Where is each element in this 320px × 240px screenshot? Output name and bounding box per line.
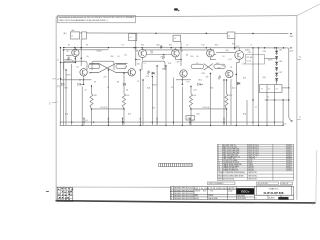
- svg-text:1000249: 1000249: [286, 158, 292, 160]
- svg-text:390: 390: [111, 56, 114, 58]
- junction: [283, 47, 284, 48]
- logo block: [237, 188, 255, 194]
- wire resistor bottom: [226, 109, 228, 125]
- junction: [75, 58, 76, 59]
- title inner box: [256, 186, 292, 195]
- wire sheet bottom border: [56, 186, 170, 188]
- svg-text:R15: R15: [222, 66, 225, 68]
- junction: [252, 99, 253, 100]
- wire input rail 2: [63, 50, 65, 126]
- wire Q5 collector: [238, 48, 240, 51]
- svg-text:2N404: 2N404: [97, 51, 102, 53]
- svg-text:RES 10,000 OHM 1/4W: RES 10,000 OHM 1/4W: [223, 152, 240, 154]
- wire resistor bottom: [190, 109, 192, 125]
- junction bus: [252, 121, 253, 122]
- wire sheet top border: [56, 16, 297, 17]
- junction bus1c: [252, 33, 253, 34]
- relay K1 box: [186, 116, 195, 120]
- svg-text:FINISH: FINISH: [208, 195, 213, 197]
- wire Q2 emitter: [142, 58, 144, 61]
- transistor Q8: [180, 70, 187, 77]
- svg-text:REVISED PER ECN 3-62: REVISED PER ECN 3-62: [174, 190, 193, 192]
- junction: [135, 47, 136, 48]
- zone tick left b: [52, 78, 56, 80]
- svg-text:R14: R14: [202, 44, 205, 46]
- wire bus drop: [142, 80, 144, 125]
- svg-text:C8: C8: [122, 44, 124, 46]
- svg-text:IN270: IN270: [268, 60, 273, 62]
- svg-text:1000270: 1000270: [286, 164, 292, 166]
- svg-text:REVISED PER ECN 2-61: REVISED PER ECN 2-61: [174, 188, 193, 190]
- svg-text:FLIP-FLOP 838: FLIP-FLOP 838: [264, 191, 284, 195]
- wire bus drop: [246, 100, 248, 125]
- transistor Q4: [207, 49, 215, 57]
- wire bus drop: [65, 70, 67, 125]
- terminal block TB1: [260, 85, 283, 93]
- wire Q2-Q3 link: [147, 54, 172, 56]
- wire small loop: [191, 64, 203, 68]
- wire small loop: [89, 64, 100, 68]
- stamp dash: [46, 190, 49, 192]
- zone tick right lower: [297, 119, 301, 121]
- svg-text:C: C: [299, 116, 301, 119]
- junction: [142, 79, 143, 80]
- wire resistor bottom: [123, 109, 125, 125]
- wire Q3 emitter: [174, 57, 176, 60]
- svg-text:R21 680: R21 680: [247, 57, 253, 59]
- junction bus: [189, 121, 190, 122]
- wire Q2 collector: [142, 48, 144, 50]
- svg-text:Q3: Q3: [181, 51, 183, 53]
- diode CR3: [152, 72, 155, 75]
- svg-text:C1: C1: [144, 63, 146, 65]
- svg-text:R10: R10: [141, 44, 144, 46]
- wire L3 to bus2: [180, 41, 182, 66]
- svg-text:T1: T1: [261, 89, 263, 91]
- svg-text:REVISED PER ECN 5-64: REVISED PER ECN 5-64: [174, 196, 193, 198]
- junction: [83, 84, 84, 85]
- svg-text:DIODE IN645 SILICON: DIODE IN645 SILICON: [223, 162, 239, 164]
- svg-text:1000256: 1000256: [286, 160, 292, 162]
- svg-text:1000291: 1000291: [286, 170, 292, 172]
- junction: [236, 74, 237, 75]
- svg-text:1000263: 1000263: [286, 162, 292, 164]
- svg-text:838-001: 838-001: [248, 170, 254, 172]
- wire bus drop: [81, 87, 83, 126]
- svg-text:(F3): (F3): [197, 114, 201, 116]
- junction: [223, 79, 224, 80]
- svg-text:DIODE IN270 GERM: DIODE IN270 GERM: [223, 160, 238, 162]
- junction bus: [223, 121, 224, 122]
- test point arrow: [156, 117, 158, 119]
- test point arrow: [139, 117, 141, 119]
- svg-text:1000277: 1000277: [286, 166, 292, 168]
- junction: [63, 47, 64, 48]
- diode CR1: [78, 83, 81, 86]
- scan stain blob: [174, 8, 178, 11]
- wire L1 to bus2: [80, 39, 82, 66]
- transistor Q6: [80, 69, 87, 76]
- resistor R5: [67, 57, 69, 61]
- svg-text:RC07 GF %% J: RC07 GF %% J: [248, 145, 259, 147]
- wire bus drop: [235, 63, 237, 126]
- wire coupling loop: [142, 61, 165, 70]
- wire bus drop: [173, 78, 175, 126]
- svg-text:(D6): (D6): [263, 77, 267, 79]
- svg-text:R8: R8: [117, 82, 119, 84]
- wire resistor top: [226, 80, 228, 94]
- wire Q1 collector: [74, 48, 76, 49]
- wire -15V bus: [60, 121, 284, 123]
- junction: [180, 47, 181, 48]
- transistor Q1: [72, 49, 79, 56]
- svg-text:T2: T2: [268, 89, 270, 91]
- wire +15V bus: [63, 47, 289, 49]
- inductor L2 box: [129, 34, 137, 41]
- wire small loop: [214, 64, 225, 68]
- zone tick right upper: [297, 59, 301, 61]
- svg-text:R19: R19: [232, 44, 235, 46]
- junction: [170, 47, 171, 48]
- svg-text:1000235: 1000235: [286, 154, 292, 156]
- svg-text:390: 390: [177, 62, 180, 64]
- svg-text:IN270: IN270: [248, 160, 252, 162]
- junction: [264, 47, 265, 48]
- title block: [170, 187, 293, 200]
- svg-text:J.MOSS: J.MOSS: [195, 191, 200, 193]
- svg-text:(F2): (F2): [128, 114, 132, 116]
- junction: [91, 108, 92, 109]
- junction: [123, 72, 124, 73]
- wire Q4 link: [214, 54, 216, 56]
- wire rail to Q1: [61, 62, 76, 64]
- wire resistor bottom: [91, 109, 93, 125]
- junction: [206, 47, 207, 48]
- wire +34V bus: [70, 32, 288, 35]
- arrow output: [291, 120, 293, 122]
- svg-text:CR4: CR4: [248, 52, 251, 54]
- wire right horiz: [265, 99, 289, 101]
- svg-text:RES 1000 OHM 1/4W: RES 1000 OHM 1/4W: [223, 154, 238, 156]
- svg-text:MS 100: MS 100: [248, 168, 253, 170]
- wire bus drop: [107, 70, 109, 125]
- resistor R8: [218, 76, 220, 80]
- wire CR4 stub: [181, 76, 183, 84]
- wire Q5 emitter down: [238, 59, 240, 63]
- svg-text:12: 12: [57, 79, 59, 81]
- junction: [80, 58, 81, 59]
- wire base feed right: [176, 79, 191, 81]
- svg-text:1000228: 1000228: [286, 152, 292, 154]
- svg-text:(C1): (C1): [236, 46, 240, 48]
- svg-text:T4: T4: [267, 97, 269, 99]
- svg-text:R17: R17: [187, 82, 190, 84]
- junction: [75, 62, 76, 63]
- svg-text:REQ FOR 838-1: REQ FOR 838-1: [258, 183, 269, 185]
- svg-text:RC07 GF 102 J: RC07 GF 102 J: [248, 154, 259, 156]
- junction bus: [93, 121, 94, 122]
- junction rail1: [60, 78, 61, 79]
- junction bus: [108, 125, 109, 126]
- inductor L3 box: [173, 35, 181, 41]
- svg-text:220: 220: [150, 51, 153, 53]
- wire box to rail: [282, 87, 289, 89]
- used-on cell A: [257, 182, 279, 185]
- wire collector feed mid: [142, 49, 214, 51]
- transistor Q5: [235, 51, 244, 60]
- resistor R7: [162, 56, 164, 60]
- wire Q5 emitter: [238, 59, 240, 62]
- svg-text:RES 4.7K 1/2W 10%: RES 4.7K 1/2W 10%: [223, 147, 238, 149]
- wire resistor link right: [191, 108, 227, 110]
- junction bus1b: [155, 33, 156, 34]
- wire Q4 collector: [209, 48, 211, 50]
- junction: [182, 79, 183, 80]
- zone tick left: [52, 102, 56, 104]
- svg-text:R18: R18: [202, 73, 205, 75]
- junction: [141, 47, 142, 48]
- svg-text:11: 11: [218, 164, 220, 166]
- wire stub e: [211, 59, 217, 61]
- svg-text:RC07 GF 223 J: RC07 GF 223 J: [248, 151, 259, 153]
- junction: [190, 108, 191, 109]
- svg-text:NONE: NONE: [195, 198, 199, 200]
- paper edge top right: [297, 4, 319, 15]
- junction: [190, 86, 191, 87]
- wire coupling loop: [92, 61, 114, 70]
- wire rail B: [258, 48, 260, 126]
- svg-text:REVISED PER ECN 4-63: REVISED PER ECN 4-63: [174, 193, 193, 195]
- wire bus drop: [165, 66, 167, 125]
- svg-text:IN270: IN270: [153, 85, 158, 87]
- svg-text:+15V: +15V: [289, 50, 294, 52]
- wire stub a: [64, 59, 72, 61]
- wire CR1 stub: [83, 76, 85, 84]
- svg-text:IN645: IN645: [162, 69, 167, 71]
- connector J1 strip: [159, 163, 193, 166]
- resistor R 15K: [90, 94, 93, 109]
- test point arrow: [189, 117, 191, 119]
- wire input rail 1: [60, 47, 62, 125]
- svg-text:(B2): (B2): [157, 44, 161, 46]
- junction: [63, 49, 64, 50]
- svg-text:R11: R11: [135, 50, 138, 52]
- diode CR2: [123, 83, 126, 86]
- junction: [83, 79, 84, 80]
- diode chain CR5-CR10: [275, 51, 278, 53]
- svg-text:+34V: +34V: [289, 36, 294, 38]
- junction: [108, 47, 109, 48]
- svg-text:(12): (12): [57, 86, 60, 88]
- svg-text:(A1): (A1): [64, 32, 68, 35]
- svg-text:R20: R20: [243, 78, 246, 80]
- svg-text:CHOKE 100 UH 10%: CHOKE 100 UH 10%: [223, 168, 238, 170]
- junction: [60, 47, 61, 48]
- svg-text:DM15 221 J: DM15 221 J: [248, 156, 256, 158]
- wire resistor link left: [92, 108, 125, 110]
- junction: [180, 59, 181, 60]
- wire sheet right border: [296, 16, 298, 200]
- junction bus right: [266, 125, 267, 126]
- resistor R 15K: [122, 94, 125, 109]
- svg-text:THE NUMBERS IN PARENTHESIS ON: THE NUMBERS IN PARENTHESIS ON THIS DWG I…: [59, 16, 135, 19]
- svg-text:(10): (10): [194, 90, 197, 92]
- wire L4 to Q5: [234, 38, 236, 50]
- svg-text:CR8: CR8: [263, 51, 266, 53]
- junction bus: [236, 125, 237, 126]
- junction: [180, 47, 181, 48]
- resistor R6: [147, 71, 149, 75]
- svg-text:R16: R16: [215, 44, 218, 46]
- junction: [80, 47, 81, 48]
- svg-text:R3: R3: [94, 82, 96, 84]
- junction: [234, 47, 235, 48]
- svg-text:REVISED PER ECN 6-65: REVISED PER ECN 6-65: [174, 198, 193, 200]
- junction: [80, 47, 81, 48]
- svg-text:SEE NOTE 2: SEE NOTE 2: [248, 175, 257, 177]
- transistor Q9: [226, 70, 233, 77]
- junction bus: [182, 125, 183, 126]
- svg-text:IN270: IN270: [66, 75, 71, 77]
- junction: [108, 69, 109, 70]
- junction bus: [140, 125, 141, 126]
- svg-text:390: 390: [191, 56, 194, 58]
- junction: [165, 65, 166, 66]
- svg-text:CR5: CR5: [279, 50, 282, 52]
- svg-text:T3: T3: [276, 89, 278, 91]
- junction bus1: [206, 33, 207, 34]
- junction: [123, 108, 124, 109]
- svg-text:7: 7: [57, 102, 58, 104]
- junction bus: [123, 121, 124, 122]
- wire coupling loop: [64, 61, 87, 70]
- junction rail1b: [60, 62, 61, 63]
- svg-text:RES 15,000 OHM 1/4W: RES 15,000 OHM 1/4W: [223, 149, 240, 151]
- test point arrow: [83, 117, 85, 119]
- svg-text:CR7: CR7: [279, 72, 282, 74]
- arrow bus2 flow: [161, 45, 163, 47]
- svg-text:R2: R2: [86, 45, 88, 47]
- svg-text:L1: L1: [71, 36, 73, 38]
- diode CR11: [237, 82, 240, 85]
- resistor R 8.2K: [225, 94, 228, 109]
- junction: [258, 47, 259, 48]
- svg-text:1000200: 1000200: [286, 145, 292, 147]
- svg-text:14: 14: [218, 170, 220, 172]
- wire bus drop: [139, 70, 141, 125]
- svg-text:USED ON PLUG-IN ASSEMBLY NO(S): USED ON PLUG-IN ASSEMBLY NO(S) SHOWN THU…: [59, 19, 108, 22]
- junction bus: [71, 121, 72, 122]
- svg-text:1000284: 1000284: [286, 168, 292, 170]
- svg-text:C9: C9: [186, 44, 188, 46]
- arrow +15V bus end: [290, 47, 292, 49]
- wire resistor top: [91, 86, 93, 94]
- junction: [276, 47, 277, 48]
- wire stub d: [176, 59, 181, 61]
- junction bus: [258, 125, 259, 126]
- svg-text:EECo: EECo: [241, 190, 249, 194]
- junction bus: [152, 121, 153, 122]
- req-for cell: [208, 182, 236, 185]
- svg-text:1000221: 1000221: [286, 151, 292, 153]
- svg-text:REF DWG B-837 B-839: REF DWG B-837 B-839: [218, 178, 234, 180]
- wire Q5 base: [216, 52, 235, 54]
- wire Q1 emitter drop: [74, 57, 76, 63]
- wire bus drop: [230, 79, 232, 125]
- svg-text:(F1): (F1): [65, 114, 69, 116]
- junction: [288, 87, 289, 88]
- svg-text:1000207: 1000207: [286, 147, 292, 149]
- wire to output arrow: [289, 118, 291, 121]
- scan paper bottom edge: [56, 201, 316, 203]
- svg-text:1000242: 1000242: [286, 156, 292, 158]
- svg-text:C3: C3: [137, 81, 139, 83]
- svg-text:Q6: Q6: [76, 66, 78, 68]
- svg-text:C7: C7: [255, 107, 257, 109]
- stamp block: [57, 187, 73, 201]
- junction bus: [210, 125, 211, 126]
- used-on cell B: [281, 182, 293, 185]
- wire bus drop: [151, 77, 153, 126]
- arrow +34V bus end: [290, 33, 292, 35]
- junction: [234, 47, 235, 48]
- junction: [274, 47, 275, 48]
- svg-text:(11): (11): [229, 59, 232, 61]
- svg-text:SEE NOTE 1: SEE NOTE 1: [248, 172, 257, 174]
- svg-text:2N1305: 2N1305: [248, 166, 253, 168]
- wire L2 to bus2: [135, 34, 137, 66]
- svg-text:J1: J1: [57, 59, 59, 61]
- wire rail A: [252, 48, 254, 126]
- svg-text:CR6: CR6: [279, 61, 282, 63]
- wire ground bus: [60, 124, 284, 126]
- wire Q1 emitter: [74, 57, 76, 60]
- junction: [140, 69, 141, 70]
- svg-text:IN645: IN645: [248, 162, 252, 164]
- wire box to chain: [265, 58, 277, 60]
- svg-text:2N404: 2N404: [248, 164, 253, 166]
- junction: [160, 47, 161, 48]
- wire stub b: [66, 54, 72, 56]
- wire under box verts: [266, 93, 268, 126]
- svg-text:C2: C2: [196, 63, 198, 65]
- svg-text:(F4): (F4): [243, 114, 247, 116]
- test point arrow: [223, 117, 225, 119]
- diode CR4: [198, 83, 201, 86]
- svg-text:C4 .01: C4 .01: [247, 61, 252, 63]
- transistor Q7: [128, 69, 135, 76]
- diode CR0: [61, 83, 64, 86]
- wire bus drop: [210, 74, 212, 126]
- junction: [156, 65, 157, 66]
- wire sheet left border: [55, 17, 57, 201]
- wire base feed left: [61, 79, 92, 81]
- inductor L1 box: [70, 32, 79, 39]
- junction: [288, 99, 289, 100]
- inductor L1b box: [82, 32, 87, 39]
- svg-text:R25: R25: [65, 88, 68, 90]
- contact box K2: [246, 55, 265, 65]
- test point arrow: [108, 117, 110, 119]
- junction: [226, 79, 227, 80]
- svg-text:R22: R22: [152, 108, 155, 110]
- wire bus drop: [156, 66, 158, 125]
- svg-text:13: 13: [218, 168, 220, 170]
- svg-text:R1: R1: [68, 45, 70, 47]
- svg-text:-15V (C5): -15V (C5): [202, 107, 210, 109]
- junction: [226, 108, 227, 109]
- parts list table: [217, 144, 293, 180]
